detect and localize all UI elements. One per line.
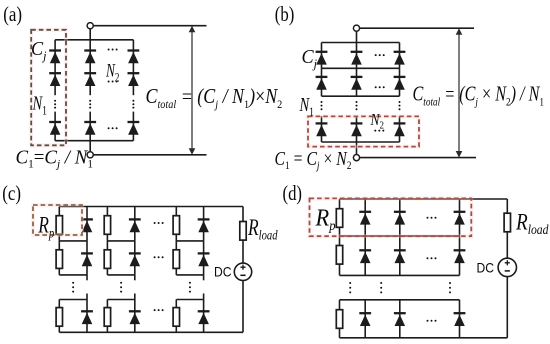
wire: rail between rows 1-2 (d) (340, 235, 460, 237)
diode group 3 row 2 (c) (198, 253, 210, 266)
resistor group 1 last row (c) (56, 308, 62, 327)
dimension arrow C_total span (b) (456, 28, 463, 157)
diode column 2 row 3 (a) (84, 122, 96, 135)
column 1 continuation dots (a) (54, 100, 56, 109)
wire: group 1 diode stub below row 2 (c) (86, 275, 88, 280)
resistor group 1 row 2 (c) (56, 250, 62, 269)
wire: group 3 diode stub above last row (c) (203, 294, 205, 300)
wire: last row column 2 branch (b) (356, 116, 358, 142)
wire: column 3 lower segment (a) (132, 112, 134, 141)
wire: bottom column rail (a) (55, 140, 133, 142)
wire: column rail to bottom terminal (a) (89, 141, 91, 152)
group 3 continuation dots (c) (189, 282, 191, 293)
svg-text:DC: DC (214, 264, 232, 280)
wire: row rail 2 (b) (322, 67, 400, 69)
wire: group 3 rail below row 2 (c) (176, 274, 203, 276)
diode column 1 row 2 (a) (49, 73, 61, 86)
diode row 2 column 3 (b) (394, 77, 406, 90)
wire: column 3 upper segment (a) (132, 40, 134, 95)
wire: row 1 column 1 branch (b) (321, 43, 323, 69)
wire: last row diode 3 branch (d) (459, 300, 461, 338)
DC source (c) (234, 263, 251, 280)
wire: bottom row rail (b) (322, 141, 400, 143)
diode column 2 row 2 (a) (84, 73, 96, 86)
diode row 2 column 1 (d) (359, 250, 371, 263)
diode group 1 last row (c) (81, 311, 93, 324)
ellipsis last row (c) (154, 309, 164, 311)
group 2 continuation dots (c) (120, 282, 122, 293)
diode group 2 row 2 (c) (129, 253, 141, 266)
resistor group 2 row 2 (c) (104, 250, 110, 269)
wire: row 1 column 2 branch (b) (356, 43, 358, 69)
wire: group 2 rail between rows 1-2 (c) (107, 240, 134, 242)
wire: group 3 rail between rows 1-2 (c) (176, 240, 203, 242)
node: bottom terminal of (b) (353, 155, 359, 161)
diode group 3 row 1 (c) (198, 219, 210, 232)
wire: right branch middle (d) (506, 232, 508, 258)
wire: column 2 lower segment (a) (89, 112, 91, 141)
diode group 1 row 2 (c) (81, 253, 93, 266)
diode row 1 column 3 (d) (454, 212, 466, 225)
wire: upper column rail (a) (55, 39, 133, 41)
wire: group 2 rail above last row (c) (107, 299, 134, 301)
wire: column 2 upper segment (a) (89, 40, 91, 95)
diode group 2 last row (c) (129, 311, 141, 324)
resistor group 1 row 1 (c) (56, 216, 62, 235)
diode row 1 column 1 (d) (359, 212, 371, 225)
wire: right branch lower (d) (506, 277, 508, 338)
ellipsis last row (b) (374, 130, 384, 132)
highlight box around R_p row (d) (310, 198, 472, 236)
wire: terminal to column rail (a) (89, 29, 91, 40)
wire: left branch last row upper (d) (339, 300, 341, 310)
wire: bottom rail (d) (340, 337, 508, 339)
diode row 2 column 3 (d) (454, 250, 466, 263)
diode last row column 3 (b) (394, 123, 406, 136)
wire: last row diode 1 branch (d) (364, 300, 366, 338)
ellipsis row 2 (a) (108, 81, 118, 83)
wire: column 1 upper segment (a) (54, 40, 56, 95)
wire: rail below row 2 (d) (340, 274, 460, 276)
wire: left branch row 2 upper (d) (339, 236, 341, 246)
wire: group 3 rail above last row (c) (176, 299, 203, 301)
ellipsis row 1 (b) (375, 54, 385, 56)
wire: terminal to row rail (b) (356, 31, 358, 42)
wire: group 3 row 2 resistor branch (c) (175, 241, 177, 275)
diode last row column 1 (d) (359, 313, 371, 326)
wire: last row diode 2 branch (d) (399, 300, 401, 338)
wire: group 2 row 1 diode branch (c) (134, 207, 136, 241)
wire: group 1 last row diode branch (c) (86, 300, 88, 333)
row continuation dots column 1 (b) (321, 101, 323, 110)
diode last row column 2 (d) (394, 313, 406, 326)
resistor group 3 row 1 (c) (173, 216, 179, 235)
wire: group 1 row 1 resistor branch (c) (58, 207, 60, 241)
resistor R_load (d) (504, 213, 510, 232)
wire: row 2 diode 1 branch (d) (364, 236, 366, 275)
resistor group 2 last row (c) (104, 308, 110, 327)
wire: bottom rail (a) (93, 154, 206, 156)
wire: top rail (d) (340, 198, 508, 200)
svg-text:C1=Cj / N1: C1=Cj / N1 (16, 146, 94, 170)
diode column 1 row 1 (a) (49, 51, 61, 64)
wire: row 1 column 3 branch (b) (399, 43, 401, 69)
node: bottom terminal of (a) (87, 152, 93, 158)
continuation dots right (d) (449, 282, 451, 293)
resistor group 3 row 2 (c) (173, 250, 179, 269)
wire: group 2 diode stub below row 2 (c) (134, 275, 136, 280)
resistor group 2 row 1 (c) (104, 216, 110, 235)
wire: group 1 row 2 diode branch (c) (86, 241, 88, 275)
DC source (d) (498, 258, 516, 276)
diode row 1 column 3 (b) (394, 52, 406, 65)
wire: group 1 rail above last row (c) (59, 299, 87, 301)
ellipsis last row (d) (427, 320, 437, 322)
wire: group 2 diode stub above last row (c) (134, 294, 136, 300)
ellipsis row 2 (c) (154, 256, 164, 258)
wire: group 3 row 1 diode branch (c) (203, 207, 205, 241)
wire: row rail to bottom terminal (b) (356, 142, 358, 155)
wire: rail above last row (d) (340, 299, 460, 301)
wire: last row column 3 branch (b) (399, 116, 401, 142)
wire: row rail 3 (b) (322, 95, 400, 97)
wire: left branch last row lower (d) (339, 328, 341, 338)
wire: bottom rail (c) (59, 331, 243, 333)
wire: row rail 1 (b) (322, 42, 400, 44)
svg-text:(c): (c) (2, 181, 21, 205)
ellipsis row 2 (d) (427, 257, 437, 259)
ellipsis row 1 (d) (427, 217, 437, 219)
wire: group 1 diode stub above last row (c) (86, 294, 88, 300)
wire: group 1 rail between rows 1-2 (c) (59, 240, 87, 242)
ellipsis row 2 (b) (375, 86, 385, 88)
continuation dots middle (d) (380, 282, 382, 293)
diode column 2 row 1 (a) (84, 51, 96, 64)
resistor group 3 last row (c) (173, 308, 179, 327)
wire: group 1 row 1 diode branch (c) (86, 207, 88, 241)
ellipsis row 3 (a) (108, 127, 118, 129)
diode column 1 row 3 (a) (49, 122, 61, 135)
resistor row 2 (d) (336, 246, 342, 265)
svg-text:(b): (b) (275, 2, 295, 26)
wire: group 1 last row resistor branch (c) (58, 300, 60, 333)
wire: row 2 column 1 branch (b) (321, 68, 323, 96)
wire: group 3 last row resistor branch (c) (175, 300, 177, 333)
group 1 continuation dots (c) (72, 282, 74, 293)
row continuation dots column 2 (b) (356, 101, 358, 110)
wire: group 3 last row diode branch (c) (203, 300, 205, 333)
wire: left branch row 2 lower (d) (339, 264, 341, 275)
diode row 1 column 2 (d) (394, 212, 406, 225)
node: top terminal of (b) (353, 25, 359, 31)
diode last row column 1 (b) (316, 123, 328, 136)
wire: row 1 diode 3 branch (d) (459, 199, 461, 236)
ellipsis row 1 (c) (154, 222, 164, 224)
diode column 3 row 2 (a) (128, 73, 140, 86)
wire: group 1 row 2 resistor branch (c) (58, 241, 60, 275)
resistor R_load (c) (240, 222, 246, 241)
column 3 continuation dots (a) (132, 100, 134, 109)
diode row 1 column 1 (b) (316, 52, 328, 65)
diode row 2 column 2 (b) (351, 77, 363, 90)
diode column 3 row 3 (a) (128, 122, 140, 135)
wire: last row column 1 branch (b) (321, 116, 323, 142)
wire: row 2 diode 3 branch (d) (459, 236, 461, 275)
svg-text:DC: DC (477, 260, 495, 276)
wire: right branch upper (c) (242, 207, 244, 222)
dimension arrow C_total span (a) (189, 26, 196, 155)
wire: top rail (b) (360, 27, 474, 29)
wire: group 2 rail below row 2 (c) (107, 274, 134, 276)
wire: row 2 column 3 branch (b) (399, 68, 401, 96)
svg-text:(d): (d) (283, 181, 303, 205)
wire: right branch lower (c) (242, 281, 244, 333)
diode row 1 column 2 (b) (351, 52, 363, 65)
wire: group 3 diode stub below row 2 (c) (203, 275, 205, 280)
wire: group 1 rail below row 2 (c) (59, 274, 87, 276)
diode group 3 last row (c) (198, 311, 210, 324)
diode column 3 row 1 (a) (128, 51, 140, 64)
wire: top rail (a) (93, 25, 206, 27)
wire: group 2 row 1 resistor branch (c) (106, 207, 108, 241)
diode last row column 2 (b) (351, 123, 363, 136)
wire: group 2 row 2 diode branch (c) (134, 241, 136, 275)
column 2 continuation dots (a) (89, 100, 91, 109)
node: top terminal of (a) (87, 23, 93, 29)
ellipsis row 1 (a) (108, 49, 118, 51)
svg-text:(a): (a) (3, 2, 22, 26)
highlight box around series string N1 (a) (31, 30, 66, 146)
resistor last row (d) (336, 310, 342, 329)
wire: right branch upper (d) (506, 199, 508, 213)
wire: row 1 diode 1 branch (d) (364, 199, 366, 236)
wire: column 1 lower segment (a) (54, 112, 56, 141)
wire: group 3 row 1 resistor branch (c) (175, 207, 177, 241)
diode row 2 column 1 (b) (316, 77, 328, 90)
wire: row 2 diode 2 branch (d) (399, 236, 401, 275)
wire: row 1 diode 2 branch (d) (399, 199, 401, 236)
diode row 2 column 2 (d) (394, 250, 406, 263)
wire: top rail (c) (59, 206, 243, 208)
wire: left branch row 1 upper (d) (339, 199, 341, 209)
wire: bottom rail (b) (360, 157, 476, 159)
diode group 2 row 1 (c) (129, 219, 141, 232)
wire: group 2 last row diode branch (c) (134, 300, 136, 333)
wire: right branch middle (c) (242, 240, 244, 263)
row continuation dots column 3 (b) (399, 101, 401, 110)
diode group 1 row 1 (c) (81, 219, 93, 232)
continuation dots left (d) (349, 282, 351, 293)
highlight box around R_p (c) (33, 205, 82, 235)
wire: group 3 row 2 diode branch (c) (203, 241, 205, 275)
wire: row 2 column 2 branch (b) (356, 68, 358, 96)
wire: group 2 row 2 resistor branch (c) (106, 241, 108, 275)
wire: group 2 last row resistor branch (c) (106, 300, 108, 333)
highlight box around parallel row N2 (b) (308, 116, 419, 146)
wire: left branch row 1 lower (d) (339, 227, 341, 236)
resistor R_p row 1 (d) (336, 209, 342, 228)
diode last row column 3 (d) (454, 313, 466, 326)
